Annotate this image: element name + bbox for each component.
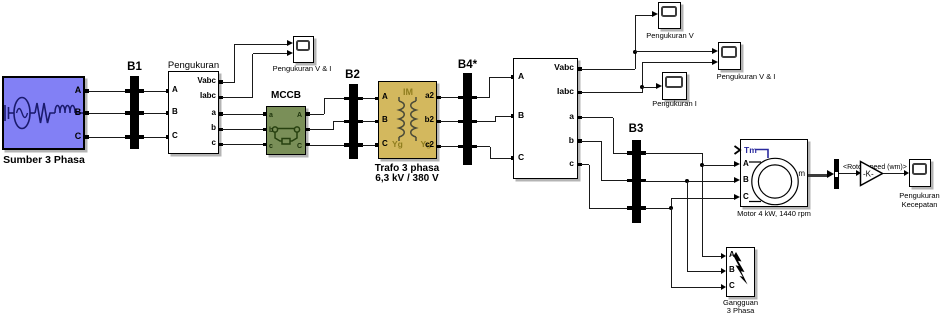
wire subsystem c to bus B3 [581,164,589,165]
wire branch down to Gangguan C [671,208,672,287]
Trafo winding icon [378,81,437,159]
label Sumber 3 Phasa [0,155,104,167]
bus B1 stubs [125,89,130,93]
junction dot motor A branch [700,163,704,167]
wire Vabc branch to scope Pengukuran V and I [635,51,713,52]
wire junction to motor input A [702,165,735,166]
arrowhead into Pengukuran Kecepatan [904,170,909,176]
three-phase fault block Gangguan [726,247,755,297]
label Motor 4 kW 1440 rpm [714,210,834,218]
bus bar B3 [632,140,641,223]
junction dot motor B branch [685,179,689,183]
arrowhead Gangguan input A [721,253,726,259]
svg-text:a: a [269,112,273,119]
Gangguan lightning bolt icon [726,247,755,297]
subsystem port stubs [511,75,515,79]
label Pengukuran [149,61,239,71]
svg-text:b: b [269,127,273,134]
Pengukuran output labels Vabc Iabc a b c [186,77,216,86]
arrowhead into gain [856,170,861,176]
wire branch to Gangguan input A [702,256,722,257]
bus bar B1 [130,76,140,149]
label Pengukuran Kecepatan [880,192,940,200]
arrowhead into scope input 1 [287,40,293,46]
scope block Pengukuran V and I right [718,42,741,70]
arrowhead into scope input 2 [287,50,293,56]
svg-text:Yg: Yg [392,139,403,149]
wire source B to bus B1 [85,113,130,114]
label B4* [453,59,483,72]
svg-text:-K-: -K- [863,170,874,179]
motor Tm unconnected input chevron [733,145,742,155]
Pengukuran port stubs [166,89,170,93]
scope block Pengukuran Kecepatan [909,159,932,187]
arrowhead into Pengukuran I [656,83,662,89]
Trafo port stubs [375,97,379,101]
wire B2 to Trafo A [362,98,378,99]
junction dot Iabc branch [640,85,644,89]
wire Iabc branch to scope Pengukuran I [642,87,657,88]
transformer block Trafo 3 phasa [378,81,437,159]
signal label Rotor speed wm [843,164,907,172]
bus B4 stubs [458,96,463,100]
arrowhead into Pengukuran V [652,11,658,17]
arrowhead into Pengukuran V and I input 2 [712,59,718,65]
wire B3 row1 to motor A [645,153,702,154]
wire B2 to Trafo B [362,121,378,122]
wire bus selector to gain [839,173,857,174]
Trafo port labels [382,93,388,102]
wire B3 row2 to motor B [645,181,735,182]
wire subsystem b to bus B3 [581,141,601,142]
wire Trafo c2 to bus B4 [440,146,463,147]
arrowhead motor input B [734,177,740,183]
bus bar B2 [349,84,358,159]
motor output label m [793,170,805,179]
label Gangguan 3 Phasa [701,299,781,307]
wire b to MCCB [222,129,266,130]
label B3 [621,123,651,136]
wire Trafo a2 to bus B4 [440,97,463,98]
bus B3 stubs [627,151,632,155]
wire MCCB A to bus B2 [309,114,324,115]
wire B4 to subsystem A [477,97,489,98]
arrowhead into bus selector [827,170,834,178]
junction dot motor C branch [669,206,673,210]
wire subsystem a to bus B3 [581,117,613,118]
svg-text:C: C [297,143,302,150]
label Pengukuran I [630,100,720,108]
scope block Pengukuran V and I left [293,36,314,64]
measurement subsystem block [513,58,578,179]
wire gain to scope Pengukuran Kecepatan [883,173,904,174]
motor input labels A B C [743,160,749,169]
wire Trafo b2 to bus B4 [440,121,463,122]
source icon (AC source, resistor, inductor) [2,76,85,150]
wire Iabc to scope Pengukuran V and I [222,97,253,98]
svg-text:A: A [297,112,302,119]
thick measurement bus wire from motor m [808,174,827,177]
arrowhead Gangguan input C [721,284,726,290]
scope block Pengukuran V [658,2,681,29]
arrowhead motor input C [734,194,740,200]
wire B2 to Trafo C [362,145,378,146]
wire source C to bus B1 [85,137,130,138]
wire B4 to subsystem C [477,146,490,147]
arrowhead motor input A [734,161,740,167]
wire branch down to Gangguan B [687,181,688,272]
wire Iabc branch to scope Pengukuran V and I input 2 [642,62,713,63]
arrowhead Gangguan input B [721,268,726,274]
label B1 [120,61,150,74]
breaker block MCCB [266,106,306,155]
wire B4 to subsystem B [477,121,495,122]
motor Tm blue wire into icon [740,139,808,207]
wire source A to bus B1 [85,91,130,92]
Gangguan input labels A B C [729,251,735,260]
3-phase source block Sumber 3 Phasa [2,76,85,150]
wire Iabc to junction [581,92,642,93]
wire B1 to Pengukuran A [144,91,168,92]
subsystem input labels A B C [518,72,524,81]
label MCCB [261,90,311,101]
gain block -K- [859,160,885,187]
wire c to MCCB [222,144,266,145]
wire MCCB B to bus B2 [309,129,333,130]
Pengukuran input labels A B C [172,86,178,95]
wire B3 row3 to motor C [645,208,671,209]
label Pengukuran V [625,32,715,40]
label B2 [338,69,368,82]
scope block Pengukuran I [662,72,687,100]
svg-text:IM: IM [403,87,413,97]
bus B2 stubs [344,97,349,101]
wire Vabc to scope Pengukuran V [581,69,635,70]
wire MCCB C to bus B2 [309,145,349,146]
MCCB icon breaker contacts [266,106,306,155]
measurement block Pengukuran [168,71,219,154]
MCCB port stubs [263,112,267,116]
wire a to MCCB [222,114,266,115]
label Pengukuran V and I left [257,65,347,73]
label Trafo 3 phasa 6,3 kV / 380 V [347,163,467,174]
wire B1 to Pengukuran B [144,113,168,114]
label Pengukuran V and I right [701,73,791,81]
motor Tm label [744,146,757,155]
bus bar B4* [463,73,472,165]
wire B1 to Pengukuran C [144,137,168,138]
bus selector block [834,159,839,189]
svg-text:c: c [269,143,273,150]
arrowhead into Pengukuran V and I input 1 [712,48,718,54]
induction motor block [740,139,808,207]
source port labels A B C [72,86,84,96]
junction dot Vabc branch [633,50,637,54]
wire Vabc to scope Pengukuran V and I [222,82,235,83]
subsystem output labels Vabc Iabc a b c [534,63,574,72]
